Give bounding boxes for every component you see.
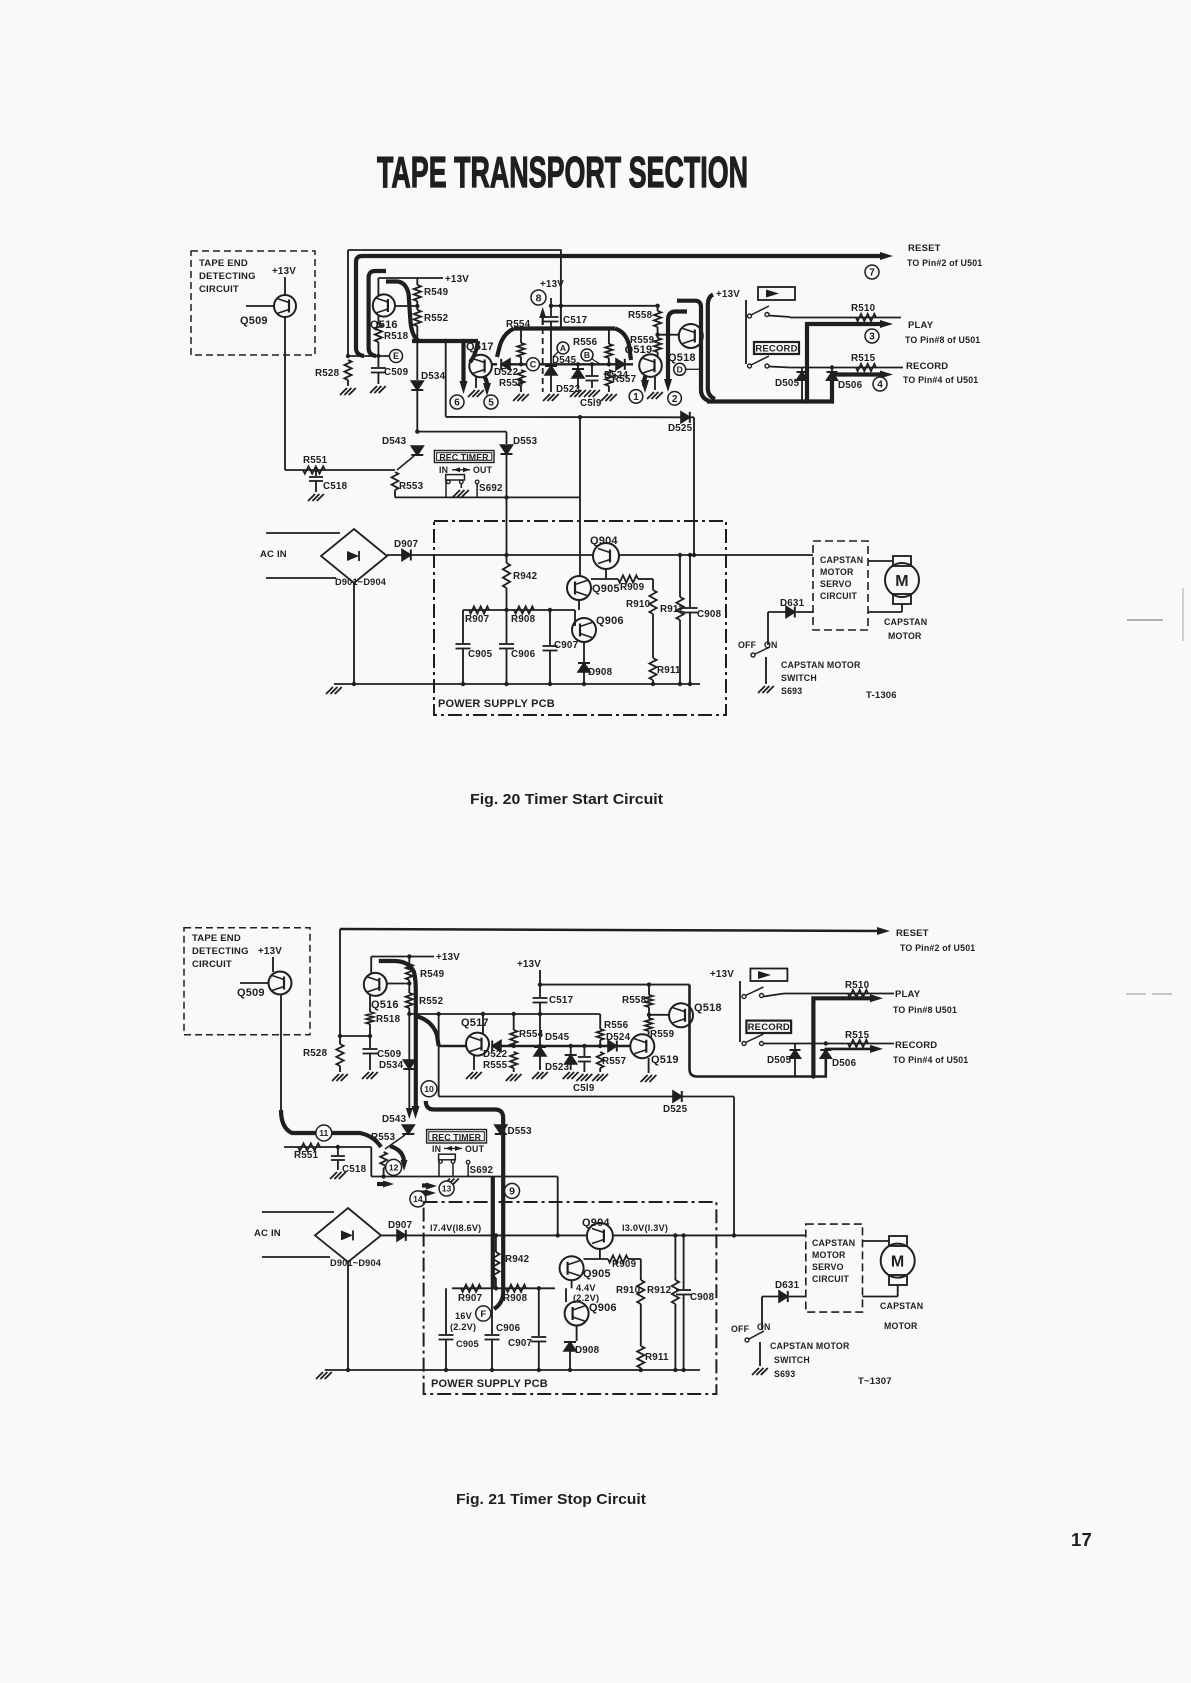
svg-text:R910: R910: [616, 1285, 641, 1296]
svg-text:12: 12: [389, 1162, 399, 1172]
svg-text:R911: R911: [657, 665, 681, 676]
svg-text:C5l9: C5l9: [580, 398, 602, 409]
svg-text:RESET: RESET: [908, 243, 941, 254]
svg-text:D524: D524: [606, 1032, 631, 1043]
svg-text:RECORD: RECORD: [895, 1040, 937, 1051]
svg-text:+13V: +13V: [710, 969, 734, 980]
svg-text:R910: R910: [626, 599, 651, 610]
svg-text:4: 4: [877, 380, 883, 391]
svg-text:1: 1: [633, 392, 639, 403]
svg-text:C908: C908: [690, 1292, 715, 1303]
svg-text:RESET: RESET: [896, 928, 929, 939]
svg-text:6: 6: [454, 398, 460, 409]
svg-text:RECORD: RECORD: [748, 1022, 790, 1033]
svg-text:AC IN: AC IN: [260, 549, 287, 560]
svg-text:9: 9: [509, 1186, 515, 1198]
svg-text:CAPSTAN: CAPSTAN: [820, 555, 863, 565]
svg-text:R556: R556: [573, 337, 598, 348]
svg-text:D908: D908: [588, 667, 613, 678]
svg-text:(2.2V): (2.2V): [573, 1293, 599, 1303]
svg-text:D505: D505: [775, 378, 800, 389]
svg-text:CIRCUIT: CIRCUIT: [812, 1274, 849, 1284]
svg-text:SERVO: SERVO: [812, 1262, 844, 1272]
svg-text:Q905: Q905: [583, 1268, 611, 1280]
svg-text:D907: D907: [388, 1220, 413, 1231]
svg-text:D523: D523: [556, 384, 581, 395]
svg-text:+13V: +13V: [272, 266, 296, 277]
svg-text:R510: R510: [845, 980, 870, 991]
svg-text:T~1307: T~1307: [858, 1376, 892, 1387]
svg-text:POWER SUPPLY PCB: POWER SUPPLY PCB: [438, 698, 555, 710]
svg-text:R528: R528: [303, 1048, 328, 1059]
svg-text:MOTOR: MOTOR: [812, 1250, 846, 1260]
svg-text:R912: R912: [647, 1285, 672, 1296]
svg-text:TAPE TRANSPORT SECTION: TAPE TRANSPORT SECTION: [377, 148, 748, 197]
svg-text:R558: R558: [622, 995, 647, 1006]
svg-text:SWITCH: SWITCH: [774, 1355, 810, 1365]
svg-text:R909: R909: [620, 582, 645, 593]
svg-text:DETECTING: DETECTING: [192, 946, 249, 957]
svg-text:A: A: [560, 343, 566, 353]
svg-text:S692: S692: [479, 483, 503, 494]
svg-text:+13V: +13V: [445, 274, 469, 285]
svg-text:TO Pin#8 U501: TO Pin#8 U501: [893, 1005, 957, 1015]
svg-text:D553: D553: [508, 1126, 533, 1137]
svg-text:CIRCUIT: CIRCUIT: [820, 591, 857, 601]
svg-text:IN: IN: [432, 1144, 441, 1154]
svg-text:CAPSTAN: CAPSTAN: [884, 617, 927, 627]
svg-text:PLAY: PLAY: [908, 320, 934, 331]
svg-text:S692: S692: [470, 1165, 494, 1176]
svg-text:C518: C518: [323, 481, 348, 492]
svg-text:R553: R553: [399, 481, 424, 492]
svg-text:Q516: Q516: [371, 999, 399, 1011]
svg-text:(2.2V): (2.2V): [450, 1322, 476, 1332]
svg-text:R551: R551: [303, 455, 328, 466]
svg-text:C517: C517: [549, 995, 574, 1006]
svg-text:D543: D543: [382, 436, 407, 447]
svg-text:IN: IN: [439, 465, 448, 475]
svg-text:10: 10: [424, 1084, 434, 1094]
svg-text:CIRCUIT: CIRCUIT: [199, 284, 239, 295]
svg-text:D506: D506: [838, 380, 863, 391]
svg-text:4.4V: 4.4V: [576, 1283, 596, 1293]
svg-text:R912: R912: [660, 604, 685, 615]
svg-text:C517: C517: [563, 315, 588, 326]
svg-text:TAPE END: TAPE END: [199, 258, 248, 269]
svg-text:C907: C907: [508, 1338, 533, 1349]
svg-text:13: 13: [442, 1184, 452, 1194]
svg-text:DETECTING: DETECTING: [199, 271, 256, 282]
svg-text:+13V: +13V: [258, 946, 282, 957]
svg-text:SERVO: SERVO: [820, 579, 852, 589]
svg-text:+13V: +13V: [436, 952, 460, 963]
svg-text:l7.4V(l8.6V): l7.4V(l8.6V): [430, 1223, 481, 1233]
svg-text:S693: S693: [774, 1369, 795, 1379]
svg-text:7: 7: [869, 268, 875, 279]
svg-text:R907: R907: [465, 614, 490, 625]
svg-text:CAPSTAN: CAPSTAN: [812, 1238, 855, 1248]
svg-text:Q517: Q517: [461, 1017, 489, 1029]
svg-text:TO Pin#2 of U501: TO Pin#2 of U501: [907, 258, 982, 268]
svg-text:M: M: [891, 1254, 905, 1271]
svg-text:OFF: OFF: [738, 640, 757, 650]
svg-text:C: C: [530, 360, 537, 370]
svg-text:+13V: +13V: [540, 279, 564, 290]
svg-text:16V: 16V: [455, 1311, 473, 1321]
svg-text:R942: R942: [513, 571, 538, 582]
svg-text:R552: R552: [419, 996, 444, 1007]
svg-text:R549: R549: [420, 969, 445, 980]
svg-text:D553: D553: [513, 436, 538, 447]
svg-text:Q906: Q906: [589, 1302, 617, 1314]
svg-text:D506: D506: [832, 1058, 857, 1069]
svg-text:R528: R528: [315, 368, 340, 379]
svg-text:MOTOR: MOTOR: [888, 631, 922, 641]
svg-text:D545: D545: [552, 355, 577, 366]
svg-text:R908: R908: [511, 614, 536, 625]
svg-text:R549: R549: [424, 287, 449, 298]
svg-text:D522: D522: [483, 1049, 508, 1060]
svg-text:C905: C905: [456, 1339, 479, 1349]
svg-text:Q906: Q906: [596, 615, 624, 627]
svg-text:PLAY: PLAY: [895, 989, 921, 1000]
svg-text:D908: D908: [575, 1345, 600, 1356]
svg-text:D631: D631: [780, 598, 805, 609]
svg-text:E: E: [393, 351, 399, 361]
svg-text:C905: C905: [468, 649, 493, 660]
svg-text:CIRCUIT: CIRCUIT: [192, 959, 232, 970]
svg-text:D522: D522: [494, 367, 519, 378]
svg-text:C518: C518: [342, 1164, 367, 1175]
svg-text:D901~D904: D901~D904: [330, 1258, 382, 1268]
svg-text:3: 3: [869, 332, 875, 343]
svg-text:D525: D525: [668, 423, 693, 434]
svg-text:F: F: [480, 1309, 486, 1320]
svg-text:AC IN: AC IN: [254, 1228, 281, 1239]
svg-text:MOTOR: MOTOR: [884, 1321, 918, 1331]
svg-text:+13V: +13V: [517, 959, 541, 970]
svg-text:TO Pin#2 of U501: TO Pin#2 of U501: [900, 943, 975, 953]
svg-text:Fig. 20 Timer Start Circui: Fig. 20 Timer Start Circuit: [470, 791, 663, 808]
svg-text:8: 8: [536, 292, 542, 304]
svg-text:14: 14: [413, 1194, 423, 1204]
svg-text:R553: R553: [371, 1132, 396, 1143]
svg-text:Q517: Q517: [466, 341, 494, 353]
svg-text:2: 2: [672, 394, 678, 405]
svg-text:S693: S693: [781, 686, 802, 696]
svg-text:Q519: Q519: [651, 1054, 679, 1066]
svg-text:RECORD: RECORD: [755, 344, 797, 355]
svg-text:RECORD: RECORD: [906, 361, 948, 372]
svg-text:R518: R518: [376, 1014, 401, 1025]
svg-text:C908: C908: [697, 609, 722, 620]
svg-text:R555: R555: [483, 1060, 508, 1071]
svg-text:D505: D505: [767, 1055, 792, 1066]
svg-text:D631: D631: [775, 1280, 800, 1291]
svg-text:C906: C906: [496, 1323, 521, 1334]
svg-text:R557: R557: [602, 1056, 627, 1067]
svg-text:+13V: +13V: [716, 289, 740, 300]
svg-text:17: 17: [1071, 1529, 1092, 1550]
svg-text:R556: R556: [604, 1020, 629, 1031]
svg-text:R942: R942: [505, 1254, 530, 1265]
svg-text:R515: R515: [851, 353, 876, 364]
svg-text:M: M: [895, 573, 909, 590]
svg-text:11: 11: [319, 1128, 328, 1138]
svg-text:POWER SUPPLY PCB: POWER SUPPLY PCB: [431, 1378, 548, 1390]
svg-text:TO Pin#4 of U501: TO Pin#4 of U501: [893, 1055, 968, 1065]
svg-text:SWITCH: SWITCH: [781, 673, 817, 683]
svg-text:C907: C907: [554, 640, 579, 651]
svg-text:R911: R911: [645, 1352, 669, 1363]
svg-text:Q904: Q904: [590, 535, 618, 547]
svg-text:D: D: [677, 364, 683, 374]
svg-text:REC TIMER: REC TIMER: [432, 1132, 482, 1142]
svg-text:R558: R558: [628, 310, 653, 321]
svg-text:D524: D524: [604, 370, 629, 381]
svg-text:C509: C509: [384, 367, 409, 378]
svg-text:D534: D534: [379, 1060, 404, 1071]
svg-text:TO Pin#4 of U501: TO Pin#4 of U501: [903, 375, 978, 385]
svg-text:R510: R510: [851, 303, 876, 314]
svg-text:R515: R515: [845, 1030, 870, 1041]
svg-text:OUT: OUT: [473, 465, 493, 475]
svg-text:CAPSTAN MOTOR: CAPSTAN MOTOR: [781, 660, 861, 670]
svg-text:R909: R909: [612, 1259, 637, 1270]
svg-text:TO Pin#8 of U501: TO Pin#8 of U501: [905, 335, 980, 345]
svg-text:D525: D525: [663, 1104, 688, 1115]
svg-text:D543: D543: [382, 1114, 407, 1125]
svg-text:Q518: Q518: [668, 352, 696, 364]
svg-text:R518: R518: [384, 331, 409, 342]
svg-text:B: B: [584, 350, 590, 360]
svg-text:CAPSTAN MOTOR: CAPSTAN MOTOR: [770, 1341, 850, 1351]
svg-text:Q509: Q509: [240, 315, 268, 327]
svg-text:D523: D523: [545, 1062, 570, 1073]
svg-text:l3.0V(l.3V): l3.0V(l.3V): [622, 1223, 668, 1233]
svg-text:C906: C906: [511, 649, 536, 660]
svg-text:R559: R559: [650, 1029, 675, 1040]
svg-text:Fig. 21 Timer Stop Circuit: Fig. 21 Timer Stop Circuit: [456, 1491, 646, 1508]
svg-text:Q904: Q904: [582, 1217, 610, 1229]
svg-text:Q905: Q905: [592, 583, 620, 595]
svg-text:R907: R907: [458, 1293, 483, 1304]
svg-text:5: 5: [488, 398, 494, 409]
svg-text:REC TIMER: REC TIMER: [439, 452, 489, 462]
svg-text:R908: R908: [503, 1293, 528, 1304]
svg-text:MOTOR: MOTOR: [820, 567, 854, 577]
svg-text:CAPSTAN: CAPSTAN: [880, 1301, 923, 1311]
svg-text:OUT: OUT: [465, 1144, 485, 1154]
svg-text:R559: R559: [630, 335, 655, 346]
svg-text:TAPE END: TAPE END: [192, 933, 241, 944]
svg-text:T-1306: T-1306: [866, 690, 897, 701]
svg-text:D907: D907: [394, 539, 419, 550]
svg-text:ON: ON: [757, 1322, 771, 1332]
svg-text:OFF: OFF: [731, 1324, 750, 1334]
svg-text:C509: C509: [377, 1049, 402, 1060]
svg-text:C5l9: C5l9: [573, 1083, 595, 1094]
svg-text:Q509: Q509: [237, 987, 265, 999]
svg-text:R552: R552: [424, 313, 449, 324]
svg-text:D901~D904: D901~D904: [335, 577, 387, 587]
svg-text:D545: D545: [545, 1032, 570, 1043]
svg-text:Q518: Q518: [694, 1002, 722, 1014]
